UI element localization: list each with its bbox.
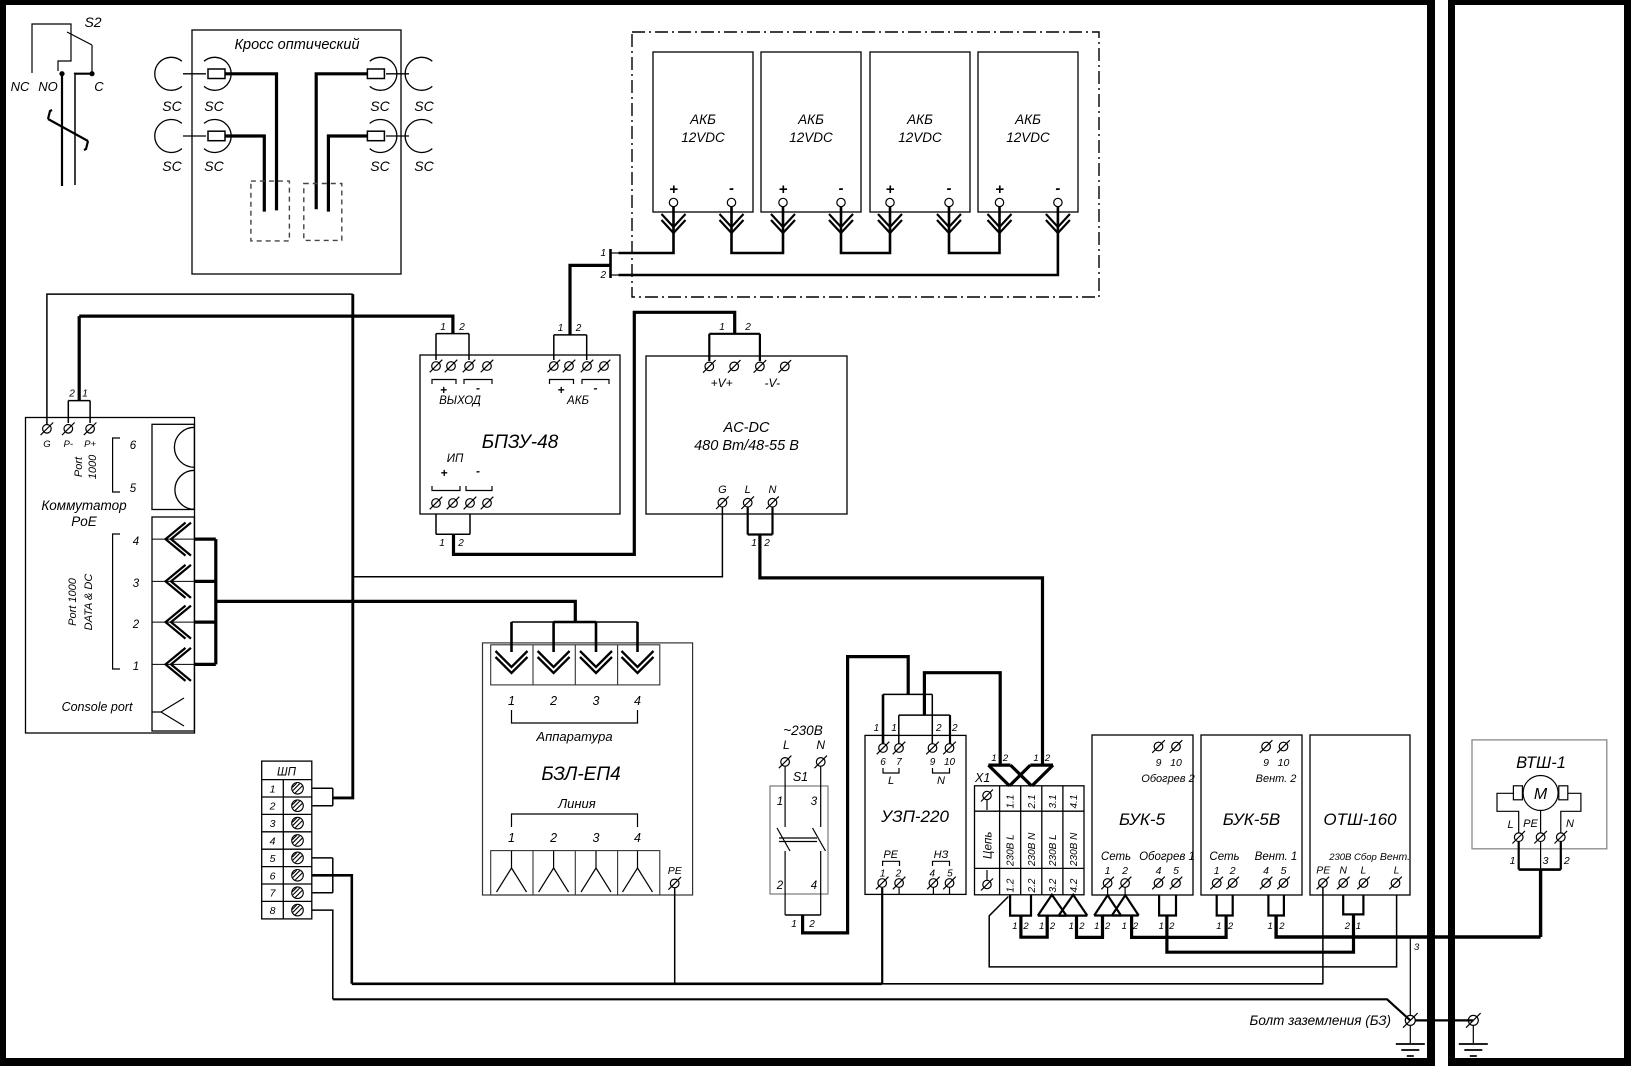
svg-text:2: 2	[1168, 921, 1175, 932]
svg-text:7: 7	[896, 757, 902, 768]
svg-text:6: 6	[270, 870, 276, 882]
wire OTSh PE to PE rail	[1322, 888, 1324, 984]
svg-text:УЗП-220: УЗП-220	[880, 807, 949, 826]
svg-text:12VDC: 12VDC	[789, 130, 833, 145]
svg-text:SC: SC	[204, 98, 224, 114]
svg-text:5: 5	[1173, 865, 1179, 877]
svg-text:Кросс оптический: Кросс оптический	[234, 37, 359, 53]
BPZU AKB terminals	[548, 360, 611, 407]
PoE G P- P+ terminals	[41, 423, 97, 451]
PoE port 4 arrow	[166, 523, 192, 556]
battery cable pins 1 2	[599, 248, 618, 281]
svg-text:SC: SC	[414, 98, 434, 114]
AC-DC G L N terminals	[716, 484, 779, 509]
cable BUK-5 heat1 to OTSh mains	[1167, 914, 1354, 952]
ground bolt main panel	[1396, 1013, 1425, 1056]
cable BUK-5 set2 to BUK-5V set	[1132, 916, 1227, 938]
svg-text:6: 6	[130, 440, 137, 452]
mains L terminal	[779, 756, 792, 769]
svg-text:2: 2	[1104, 921, 1111, 932]
svg-text:230В N: 230В N	[1069, 832, 1080, 867]
PoE data bracket	[113, 534, 120, 669]
svg-text:1: 1	[1214, 865, 1220, 877]
cable BUK-5V vent1 to VTSh fan	[1276, 916, 1541, 938]
svg-text:230В N: 230В N	[1027, 832, 1038, 867]
svg-text:1: 1	[1122, 921, 1127, 932]
svg-text:X1: X1	[974, 771, 990, 785]
battery AKB2	[761, 52, 861, 212]
PoE uplink port box 6 5	[152, 424, 194, 509]
BZL apparatus row box	[491, 645, 660, 685]
svg-text:3: 3	[1414, 942, 1420, 953]
svg-text:G: G	[718, 484, 727, 496]
svg-text:4: 4	[634, 831, 641, 845]
svg-text:Аппаратура: Аппаратура	[535, 729, 612, 744]
X1 3.2 splice triangle	[1038, 895, 1067, 916]
svg-text:P+: P+	[84, 439, 96, 450]
wire S2-NO down	[61, 74, 63, 186]
svg-text:1: 1	[1105, 865, 1111, 877]
mains N terminal	[814, 756, 827, 769]
svg-text:SC: SC	[162, 98, 182, 114]
svg-text:-: -	[729, 180, 734, 197]
wire UZP PE1 to PE rail	[881, 888, 883, 984]
BZL line row box	[491, 851, 660, 895]
svg-text:4: 4	[930, 869, 936, 880]
svg-text:1: 1	[1159, 921, 1164, 932]
BUK-5 set crossed splice triangles	[1094, 895, 1139, 915]
svg-text:230В L: 230В L	[1048, 834, 1059, 867]
ShP 1-2 jumper bracket	[312, 788, 333, 805]
ground bolt rail	[333, 999, 1411, 1020]
svg-text:2: 2	[1049, 921, 1056, 932]
svg-text:G: G	[43, 439, 50, 450]
svg-text:2: 2	[549, 694, 557, 708]
PoE console port symbol	[152, 698, 184, 726]
BPZU IP cable bracket 1 2	[436, 514, 470, 549]
wire X1 1.2 to OTSh fan terminal	[989, 895, 1396, 967]
X1 header screw symbols	[981, 790, 993, 891]
breaker S1	[770, 767, 828, 916]
svg-text:PoE: PoE	[71, 514, 98, 529]
OTSh-160 heater unit	[1310, 735, 1410, 895]
BZL line Y symbols 1-4	[497, 851, 527, 892]
svg-text:2: 2	[1229, 865, 1236, 877]
svg-text:1: 1	[891, 723, 897, 734]
svg-text:P-: P-	[64, 439, 74, 450]
svg-text:-: -	[839, 180, 844, 197]
svg-text:5: 5	[947, 869, 953, 880]
svg-text:Port 1000: Port 1000	[67, 577, 79, 626]
svg-text:SC: SC	[370, 158, 390, 174]
BZL input cable fan	[512, 622, 638, 652]
svg-text:2: 2	[763, 538, 770, 549]
PE rail bottom (thin part)	[882, 983, 1324, 985]
optical cross box (Кросс оптический)	[192, 30, 401, 274]
SC connector pair left-bottom	[155, 120, 231, 153]
svg-text:4: 4	[1263, 865, 1269, 877]
svg-text:1: 1	[508, 694, 515, 708]
cable VTSh down	[1539, 870, 1542, 937]
svg-text:Болт заземления (БЗ): Болт заземления (БЗ)	[1250, 1013, 1391, 1028]
fiber wire right-top	[316, 74, 367, 209]
svg-text:ИП: ИП	[447, 453, 464, 465]
svg-text:4: 4	[1156, 865, 1162, 877]
svg-text:N: N	[769, 484, 777, 496]
ShP terminal strip	[262, 761, 312, 919]
svg-text:AC-DC: AC-DC	[723, 420, 770, 436]
svg-text:1: 1	[270, 783, 276, 795]
svg-text:12VDC: 12VDC	[681, 130, 725, 145]
PoE switch (Коммутатор PoE)	[26, 418, 195, 734]
UZP output cable fan 1 2	[891, 715, 958, 744]
svg-text:+: +	[779, 181, 788, 198]
PoE data port box	[152, 517, 194, 731]
svg-text:2: 2	[951, 723, 958, 734]
svg-text:N: N	[816, 738, 825, 752]
svg-text:12VDC: 12VDC	[898, 130, 942, 145]
svg-text:L: L	[1507, 819, 1513, 831]
switch S2	[11, 14, 105, 94]
wire AC-DC mains cable to X1	[760, 535, 1043, 766]
svg-text:1: 1	[1094, 921, 1099, 932]
svg-text:2: 2	[269, 801, 276, 813]
svg-text:4: 4	[634, 694, 641, 708]
svg-text:4: 4	[270, 836, 276, 848]
svg-text:1: 1	[1216, 921, 1221, 932]
battery series link 1- to 2+	[732, 207, 784, 253]
svg-text:480 Вт/48-55 В: 480 Вт/48-55 В	[694, 438, 799, 454]
svg-text:АКБ: АКБ	[566, 395, 589, 407]
svg-text:Обогрев 2: Обогрев 2	[1141, 773, 1194, 785]
svg-text:РЕ: РЕ	[883, 849, 898, 861]
PoE uplink bracket	[113, 438, 120, 492]
svg-text:Линия: Линия	[557, 796, 596, 811]
wire S1 cable to UZP input	[803, 657, 909, 933]
svg-text:12VDC: 12VDC	[1006, 130, 1050, 145]
svg-text:S1: S1	[793, 770, 808, 784]
svg-text:1: 1	[991, 753, 996, 764]
wire PoE P cable up	[78, 316, 81, 401]
PoE port 3 arrow	[166, 565, 192, 598]
UZP input cable fan 1 2	[874, 694, 942, 744]
fiber wire left-bottom	[225, 136, 264, 212]
PE riser wire	[333, 294, 353, 798]
AC-DC +V -V terminals	[703, 360, 791, 390]
svg-text:Коммутатор: Коммутатор	[41, 498, 127, 513]
svg-text:1: 1	[1069, 921, 1074, 932]
svg-text:SC: SC	[204, 158, 224, 174]
svg-text:1000: 1000	[87, 454, 99, 479]
svg-text:N: N	[937, 775, 945, 787]
svg-text:2: 2	[776, 880, 784, 892]
AC-DC L N cable bracket 1 2	[748, 507, 773, 549]
PoE port bus wires	[194, 539, 215, 664]
svg-text:4.2: 4.2	[1069, 878, 1080, 892]
svg-text:1: 1	[558, 323, 564, 334]
svg-text:2: 2	[68, 389, 75, 400]
cable X1 1.2/2.2 to 3.2 splice	[1021, 916, 1047, 938]
svg-text:3: 3	[270, 818, 276, 830]
svg-text:L: L	[783, 738, 790, 752]
SC connector pair right-top	[367, 57, 432, 90]
svg-text:ВТШ-1: ВТШ-1	[1516, 754, 1566, 772]
svg-text:9: 9	[930, 757, 936, 768]
battery AKB3	[870, 52, 970, 212]
PE core 3 drop to ground bolt	[1409, 937, 1411, 1016]
fiber wire right-bottom	[328, 136, 367, 212]
PoE port 1 arrow	[166, 648, 192, 681]
wire BZL PE to PE rail	[674, 888, 676, 984]
svg-text:NC: NC	[11, 79, 30, 94]
svg-text:3: 3	[593, 694, 600, 708]
svg-text:Вент. 1: Вент. 1	[1255, 851, 1298, 863]
svg-text:1: 1	[1039, 921, 1044, 932]
svg-text:2: 2	[1227, 921, 1234, 932]
svg-text:1: 1	[1510, 855, 1516, 867]
svg-text:2: 2	[458, 322, 465, 333]
X1 crossed cable arrow left (from UZP)	[988, 765, 1031, 786]
svg-text:БПЗУ-48: БПЗУ-48	[482, 432, 559, 453]
svg-text:Вент. 2: Вент. 2	[1256, 773, 1297, 785]
svg-text:АКБ: АКБ	[797, 112, 824, 127]
BUK-5 control unit	[1092, 735, 1193, 895]
PoE P cable bracket 2 1	[68, 389, 90, 424]
svg-text:-: -	[594, 381, 598, 395]
svg-text:SC: SC	[414, 158, 434, 174]
BZL-EP4 line protection unit	[483, 643, 693, 895]
svg-text:Сеть: Сеть	[1209, 851, 1239, 863]
motor M	[1497, 776, 1581, 833]
svg-text:L: L	[1394, 865, 1400, 877]
svg-text:1.1: 1.1	[1006, 795, 1017, 809]
svg-text:Сеть: Сеть	[1101, 851, 1131, 863]
cable X1 4.2 to BUK-5 set splice	[1077, 916, 1103, 938]
svg-text:АКБ: АКБ	[906, 112, 933, 127]
svg-text:N: N	[1339, 865, 1347, 877]
svg-text:N: N	[1566, 818, 1574, 830]
BPZU IP terminals	[430, 453, 494, 509]
BPZU VYHOD terminals	[430, 360, 494, 407]
svg-text:2: 2	[457, 538, 464, 549]
svg-text:1: 1	[751, 538, 757, 549]
X1 crossed cable arrow right (from AC-DC)	[1010, 765, 1053, 786]
svg-text:2.1: 2.1	[1027, 795, 1038, 810]
OTSh N L cable bracket 2 1	[1343, 895, 1363, 914]
svg-text:4.1: 4.1	[1069, 795, 1080, 809]
svg-text:1: 1	[880, 869, 886, 880]
svg-text:L: L	[1360, 865, 1366, 877]
svg-text:3: 3	[811, 796, 818, 808]
VTSh-1 fan unit	[1472, 740, 1607, 849]
svg-text:1.2: 1.2	[1006, 878, 1017, 892]
svg-text:9: 9	[1156, 757, 1162, 769]
svg-text:2: 2	[1044, 753, 1051, 764]
svg-text:ОТШ-160: ОТШ-160	[1323, 810, 1397, 829]
svg-text:+: +	[886, 181, 895, 198]
BUK-5V control unit	[1201, 735, 1302, 895]
splice cassette 1 (dashed)	[251, 181, 290, 241]
BPZU AKB cable bracket 1 2	[554, 323, 587, 360]
svg-text:-V-: -V-	[765, 376, 781, 390]
UZP top terminals 6 7 9 10	[877, 742, 956, 787]
svg-text:2: 2	[1344, 921, 1351, 932]
svg-text:1: 1	[439, 538, 445, 549]
svg-text:10: 10	[1278, 757, 1290, 769]
svg-text:S2: S2	[84, 14, 101, 30]
svg-text:БУК-5В: БУК-5В	[1223, 810, 1280, 829]
svg-text:1: 1	[1033, 753, 1038, 764]
svg-text:1: 1	[874, 723, 880, 734]
svg-text:NO: NO	[38, 79, 58, 94]
svg-text:Обогрев 1: Обогрев 1	[1139, 851, 1195, 863]
svg-text:2: 2	[575, 323, 582, 334]
BUK-5 heat1 cable bracket	[1159, 895, 1176, 916]
svg-text:5: 5	[1281, 865, 1287, 877]
PoE port 2 arrow	[166, 606, 192, 639]
right panel frame	[1448, 0, 1631, 1066]
wire BPZU output to PoE P bracket	[79, 316, 453, 334]
svg-text:+V+: +V+	[711, 376, 733, 390]
svg-text:+: +	[440, 466, 447, 480]
svg-text:1: 1	[1356, 921, 1361, 932]
svg-text:3.1: 3.1	[1048, 795, 1059, 809]
battery - lead to pin 2	[619, 207, 1058, 275]
wire BPZU IP to AC-DC +V	[454, 312, 735, 554]
SC connector pair left-top	[155, 57, 231, 90]
svg-text:1: 1	[440, 322, 446, 333]
svg-text:4: 4	[811, 880, 817, 892]
svg-text:БЗЛ-ЕП4: БЗЛ-ЕП4	[541, 764, 620, 785]
svg-text:2: 2	[599, 270, 606, 281]
svg-text:2: 2	[1078, 921, 1085, 932]
svg-text:2: 2	[1002, 753, 1009, 764]
svg-text:+: +	[557, 383, 564, 397]
svg-text:1: 1	[82, 389, 88, 400]
svg-text:+: +	[995, 181, 1004, 198]
svg-text:РЕ: РЕ	[668, 865, 683, 877]
svg-text:L: L	[745, 484, 751, 496]
svg-text:DATA & DC: DATA & DC	[83, 574, 95, 631]
PE rail bottom (thick part)	[352, 982, 882, 985]
BPZU-48 power supply unit	[420, 355, 620, 514]
svg-text:3: 3	[133, 578, 140, 590]
svg-text:Цепь: Цепь	[983, 832, 995, 859]
SC connector pair right-bottom	[367, 120, 432, 153]
svg-text:SC: SC	[162, 158, 182, 174]
battery cable to BPZU AKB	[570, 265, 611, 335]
svg-text:10: 10	[1170, 757, 1182, 769]
wire PoE data cable to BZL	[216, 601, 576, 622]
battery AKB1	[653, 52, 753, 212]
svg-text:M: M	[1534, 786, 1548, 803]
svg-text:5: 5	[270, 853, 276, 865]
svg-text:1: 1	[791, 919, 797, 930]
svg-text:2: 2	[1022, 921, 1029, 932]
svg-text:ВЫХОД: ВЫХОД	[439, 395, 481, 407]
BPZU VYHOD cable bracket 1 2	[436, 322, 469, 360]
UZP-220 surge protector	[865, 735, 966, 894]
svg-text:1: 1	[719, 322, 725, 333]
battery AKB4	[978, 52, 1078, 212]
fiber wire left-top	[225, 74, 277, 211]
wire ShP6 to PE rail	[312, 875, 352, 984]
twisted-pair marker	[48, 110, 88, 150]
svg-text:3: 3	[1543, 855, 1549, 867]
svg-text:4: 4	[133, 536, 139, 548]
battery + lead to pin 1	[619, 207, 674, 253]
svg-text:230В L: 230В L	[1006, 834, 1017, 867]
svg-text:230В Сбор: 230В Сбор	[1328, 852, 1377, 863]
svg-text:SC: SC	[370, 98, 390, 114]
wire AC-DC G to PE riser	[353, 507, 722, 577]
svg-text:+: +	[669, 181, 678, 198]
battery series link 2- to 3+	[841, 207, 890, 253]
svg-text:НЗ: НЗ	[934, 849, 949, 861]
svg-text:10: 10	[944, 757, 956, 768]
ground bolt right panel	[1459, 1013, 1488, 1056]
svg-text:6: 6	[880, 757, 886, 768]
wire S2-C down	[75, 73, 92, 76]
ShP 5-7 jumper bracket	[312, 858, 333, 893]
AC-DC converter 480W	[646, 356, 847, 514]
AC-DC +V cable bracket 1 2	[709, 322, 760, 361]
svg-text:-: -	[1055, 180, 1060, 197]
svg-text:Console port: Console port	[62, 700, 133, 714]
wire PoE G up	[47, 294, 353, 424]
svg-text:3: 3	[593, 831, 600, 845]
svg-text:1: 1	[600, 248, 606, 259]
battery lead arrows	[662, 214, 1070, 233]
svg-text:Port: Port	[73, 456, 85, 477]
svg-text:АКБ: АКБ	[1014, 112, 1041, 127]
svg-text:-: -	[947, 180, 952, 197]
svg-text:1: 1	[1012, 921, 1017, 932]
svg-text:2: 2	[744, 322, 751, 333]
svg-text:2: 2	[132, 619, 140, 631]
UZP PE terminals 1 2	[876, 849, 905, 895]
battery series link 3- to 4+	[949, 207, 1000, 253]
X1 1.2-2.2 cable bracket	[1010, 895, 1031, 916]
svg-text:АКБ: АКБ	[689, 112, 716, 127]
svg-text:3.2: 3.2	[1048, 878, 1059, 892]
svg-text:L: L	[888, 775, 894, 787]
VTSh cable bracket 1 3 2	[1510, 842, 1570, 870]
svg-text:5: 5	[130, 483, 137, 495]
svg-text:БУК-5: БУК-5	[1119, 810, 1166, 829]
svg-text:2: 2	[895, 869, 902, 880]
svg-text:C: C	[94, 79, 104, 94]
UZP NZ terminals 4 5	[927, 849, 956, 895]
BUK-5V set cable bracket	[1217, 895, 1233, 916]
svg-text:1: 1	[1268, 921, 1273, 932]
svg-text:Вент.: Вент.	[1380, 851, 1410, 863]
svg-text:1: 1	[508, 831, 515, 845]
svg-text:PE: PE	[1523, 818, 1538, 830]
wire UZP output cable to X1	[924, 673, 1000, 765]
svg-text:2: 2	[935, 723, 942, 734]
wire ShP8 to ground bolt rail	[312, 910, 333, 999]
svg-text:~230В: ~230В	[783, 723, 822, 738]
svg-text:8: 8	[270, 905, 276, 917]
svg-text:2: 2	[549, 831, 557, 845]
X1 4.2 splice triangle	[1059, 895, 1088, 916]
svg-text:2: 2	[1278, 921, 1285, 932]
svg-text:1: 1	[777, 796, 783, 808]
svg-text:-: -	[476, 464, 480, 478]
splice cassette 2 (dashed)	[304, 184, 342, 241]
svg-text:1: 1	[133, 661, 139, 673]
